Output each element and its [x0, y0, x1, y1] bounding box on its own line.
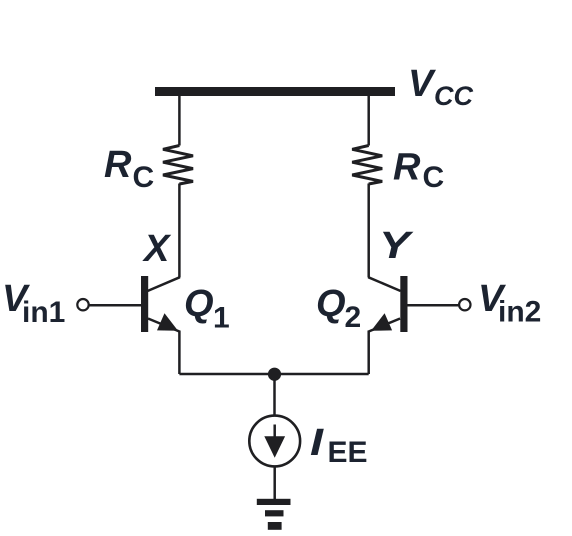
- svg-text:C: C: [423, 161, 445, 194]
- svg-text:in2: in2: [498, 296, 541, 329]
- svg-text:R: R: [104, 144, 132, 186]
- svg-text:C: C: [133, 161, 155, 194]
- svg-text:1: 1: [213, 302, 230, 335]
- svg-text:Q: Q: [184, 283, 214, 325]
- svg-text:EE: EE: [328, 436, 368, 469]
- svg-text:in1: in1: [22, 296, 65, 329]
- svg-text:Y: Y: [379, 225, 414, 267]
- svg-text:CC: CC: [434, 81, 473, 111]
- svg-text:2: 2: [345, 301, 362, 334]
- svg-text:R: R: [393, 147, 421, 189]
- svg-text:Q: Q: [316, 283, 346, 325]
- svg-text:I: I: [310, 422, 325, 464]
- svg-text:X: X: [142, 228, 172, 270]
- svg-text:V: V: [408, 63, 436, 105]
